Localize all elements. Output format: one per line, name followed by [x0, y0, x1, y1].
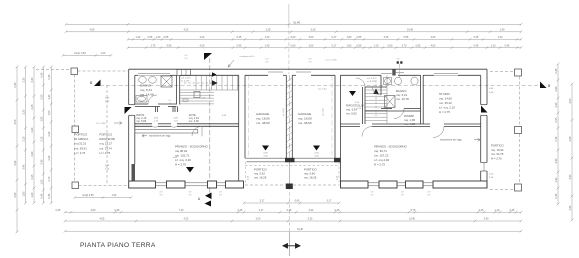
svg-text:ms. 48,60: ms. 48,60 — [298, 121, 312, 125]
svg-text:0,45: 0,45 — [237, 36, 242, 39]
garage bottom wall with doors — [285, 158, 295, 163]
svg-text:0,45: 0,45 — [510, 209, 515, 212]
svg-text:H = 2,75: H = 2,75 — [491, 156, 502, 160]
svg-text:esposizione per ragg.: esposizione per ragg. — [149, 135, 171, 138]
section B marker right — [540, 82, 547, 89]
svg-text:0,45: 0,45 — [14, 82, 17, 87]
window lines in top wall — [138, 73, 170, 75]
svg-text:0,45: 0,45 — [237, 44, 242, 47]
svg-text:3,43: 3,43 — [569, 136, 572, 141]
dashed outline left portico — [36, 69, 71, 71]
svg-text:0,55: 0,55 — [148, 36, 153, 39]
svg-text:0,45: 0,45 — [287, 209, 292, 212]
svg-text:Ampl. 3,50: Ampl. 3,50 — [74, 52, 86, 55]
svg-text:mq. 18,00: mq. 18,00 — [256, 116, 270, 120]
dimension line left outer — [16, 67, 18, 232]
wall bottom of ripos/ante — [135, 123, 152, 125]
svg-text:0,45: 0,45 — [48, 193, 51, 198]
window sill right-3 — [423, 182, 433, 184]
svg-text:PRANZO - SOGGIORNO: PRANZO - SOGGIORNO — [374, 144, 408, 148]
svg-text:1,80: 1,80 — [40, 116, 43, 121]
wall top of pranzo right unit — [341, 123, 361, 125]
dimension line bottom tier-3 — [65, 220, 521, 222]
svg-text:3,20: 3,20 — [311, 29, 316, 32]
svg-text:4,00: 4,00 — [431, 36, 436, 39]
outer wall left of left unit — [128, 69, 130, 104]
section A flag bottom — [205, 193, 212, 200]
outer wall top — [129, 68, 487, 70]
svg-text:2,50: 2,50 — [40, 94, 43, 99]
dashed axis garage right — [331, 76, 333, 159]
bagno left: sinks — [139, 76, 147, 83]
outer wall right of right unit — [480, 75, 482, 104]
bottom wall left unit with windows — [129, 181, 156, 188]
wall bagno left right unit — [380, 75, 382, 95]
svg-text:3,40: 3,40 — [14, 160, 17, 165]
svg-text:2,40: 2,40 — [48, 155, 51, 160]
svg-text:1,10: 1,10 — [495, 209, 500, 212]
door notch arcs on ripos/ante wall — [152, 125, 158, 128]
svg-text:0,45: 0,45 — [335, 209, 340, 212]
svg-text:2,60: 2,60 — [555, 86, 558, 91]
window sill left-2 — [185, 182, 208, 184]
svg-text:1,20: 1,20 — [156, 36, 161, 39]
portico bottom dashed — [245, 184, 286, 186]
svg-text:H = 2,75: H = 2,75 — [75, 151, 86, 155]
dimension line bottom overall 31,40 — [65, 230, 521, 232]
svg-text:0,9: 0,9 — [169, 103, 172, 105]
svg-text:4,20: 4,20 — [200, 44, 205, 47]
bottom wall right unit with windows — [341, 181, 369, 188]
svg-text:mq. 18,00: mq. 18,00 — [298, 116, 312, 120]
svg-text:PORTICO: PORTICO — [100, 132, 114, 136]
svg-text:1,40: 1,40 — [555, 177, 558, 182]
svg-text:1,00: 1,00 — [101, 52, 106, 55]
svg-text:4,20: 4,20 — [200, 36, 205, 39]
svg-text:0,45: 0,45 — [555, 193, 558, 198]
svg-text:ms. 5,86: ms. 5,86 — [136, 119, 147, 123]
svg-text:3,25: 3,25 — [308, 218, 313, 221]
svg-text:mq 38,04: mq 38,04 — [175, 149, 187, 153]
svg-text:0,55: 0,55 — [404, 36, 409, 39]
svg-text:3,00: 3,00 — [309, 44, 314, 47]
esposizione arrow left unit — [142, 134, 147, 137]
svg-text:3,40: 3,40 — [23, 164, 26, 169]
dimension line bottom lungh — [75, 197, 131, 199]
svg-text:H = 2,70: H = 2,70 — [175, 163, 186, 167]
stair newel left — [194, 92, 200, 98]
svg-text:0,45: 0,45 — [115, 209, 120, 212]
pillar right middle — [515, 127, 522, 134]
dimension line right outer — [571, 84, 573, 220]
dimension line left mid-2 — [33, 67, 35, 203]
chimney left (in wall band) — [177, 69, 190, 75]
window sill right-2 — [397, 182, 406, 184]
svg-text:2,40: 2,40 — [31, 151, 34, 156]
svg-text:avv. 1,50: avv. 1,50 — [318, 89, 327, 91]
svg-text:2,30: 2,30 — [31, 77, 34, 82]
svg-text:sal. 0,272: sal. 0,272 — [367, 78, 377, 80]
window sill left-3 — [217, 182, 226, 184]
section A line vertical — [209, 58, 211, 196]
svg-text:al. 0,176: al. 0,176 — [367, 81, 376, 83]
svg-text:mq. 14,60: mq. 14,60 — [439, 97, 452, 101]
svg-text:2,15: 2,15 — [40, 136, 43, 141]
svg-text:ms. 102,71: ms. 102,71 — [175, 154, 190, 158]
svg-text:0,90: 0,90 — [167, 44, 172, 47]
door jamb stubs ripos/ante — [155, 107, 157, 113]
svg-text:2,40: 2,40 — [48, 131, 51, 136]
svg-text:0,9: 0,9 — [169, 100, 172, 102]
svg-text:ms. 33,74: ms. 33,74 — [100, 146, 113, 150]
bagno left: shower — [161, 76, 172, 87]
svg-text:3,40: 3,40 — [569, 174, 572, 179]
svg-text:4,50: 4,50 — [14, 119, 17, 124]
counter bar top of pranzo left unit — [135, 130, 198, 134]
svg-text:1,80: 1,80 — [23, 191, 26, 196]
svg-text:3,60: 3,60 — [91, 209, 96, 212]
svg-text:0,45: 0,45 — [40, 72, 43, 77]
garage entry triangle left — [262, 146, 269, 151]
door arc pranzo right-2 — [433, 127, 444, 138]
svg-text:ESISTENTE: ESISTENTE — [100, 137, 116, 141]
svg-text:esposizione per ragg.: esposizione per ragg. — [440, 139, 462, 142]
svg-text:sal. 0,272: sal. 0,272 — [181, 78, 191, 80]
svg-text:BAGNO: BAGNO — [140, 84, 152, 88]
svg-text:s.f. mq. 2,15: s.f. mq. 2,15 — [439, 105, 455, 109]
dimension line top tier-1 overall — [66, 23, 521, 25]
svg-text:2,15: 2,15 — [23, 136, 26, 141]
svg-text:1,90: 1,90 — [112, 194, 117, 197]
flue marks right unit — [397, 61, 399, 63]
datum symbol horizontal arrows — [288, 232, 290, 256]
svg-text:2,30: 2,30 — [23, 77, 26, 82]
svg-text:0,45: 0,45 — [56, 209, 61, 212]
svg-text:H = 2,75: H = 2,75 — [100, 151, 111, 155]
step below stairs left — [183, 99, 188, 102]
svg-text:ms. 14,98: ms. 14,98 — [140, 92, 154, 96]
svg-text:0,55: 0,55 — [357, 44, 362, 47]
svg-text:mq. 39,71: mq. 39,71 — [374, 149, 387, 153]
svg-text:s.f. 1,10: s.f. 1,10 — [323, 108, 325, 116]
wall corridor/stairs right unit — [362, 87, 364, 124]
svg-text:4,50: 4,50 — [569, 98, 572, 103]
svg-text:STUDIO: STUDIO — [439, 92, 451, 96]
dimension line left mid-3 — [42, 67, 44, 203]
wall between right garage and right unit — [334, 75, 336, 158]
dimension line right inner — [557, 64, 559, 204]
center axis line — [288, 4, 290, 24]
bagno right: wc bidet — [384, 78, 392, 85]
svg-text:s.f. mq.4,92: s.f. mq.4,92 — [374, 158, 389, 162]
svg-text:PIANTA PIANO TERRA: PIANTA PIANO TERRA — [80, 242, 156, 249]
dimension line top tier-4 — [128, 47, 521, 49]
window sill right-1 — [368, 182, 379, 184]
stairs left unit — [180, 76, 239, 104]
door arc bagno right — [372, 86, 381, 95]
svg-text:0,17: 0,17 — [332, 44, 337, 47]
svg-text:1,75: 1,75 — [151, 44, 156, 47]
svg-text:ms. 48,60: ms. 48,60 — [256, 121, 270, 125]
annotation arrow intradosso — [228, 60, 234, 67]
wall bagno/studio right unit — [420, 75, 422, 124]
dimension line bottom tier-2 — [65, 211, 521, 213]
svg-text:3,70: 3,70 — [402, 44, 407, 47]
svg-text:3,40: 3,40 — [484, 218, 489, 221]
bagno left: wc — [136, 96, 147, 103]
svg-text:1,10: 1,10 — [374, 44, 379, 47]
svg-text:H = 2,75: H = 2,75 — [439, 110, 450, 114]
svg-text:0,45: 0,45 — [238, 209, 243, 212]
svg-text:2,45: 2,45 — [479, 209, 484, 212]
svg-text:3,40: 3,40 — [555, 158, 558, 163]
svg-text:mq. 13,27: mq. 13,27 — [100, 142, 113, 146]
svg-text:0,55: 0,55 — [357, 36, 362, 39]
svg-text:1,40: 1,40 — [48, 94, 51, 99]
entrance door left unit — [125, 107, 132, 114]
svg-text:ms. 4,86: ms. 4,86 — [404, 122, 415, 126]
svg-text:1,50: 1,50 — [40, 179, 43, 184]
svg-text:3,20: 3,20 — [256, 218, 261, 221]
svg-text:mq 31,31: mq 31,31 — [75, 142, 87, 146]
svg-text:al. 0,176: al. 0,176 — [181, 80, 190, 82]
svg-text:ms. 35,42: ms. 35,42 — [439, 101, 452, 105]
svg-text:10,40: 10,40 — [409, 218, 416, 221]
dimension line bottom garage doors — [244, 202, 339, 204]
dimension line top tier-3 — [128, 38, 521, 40]
svg-text:4,05: 4,05 — [100, 218, 105, 221]
svg-text:1,40: 1,40 — [265, 36, 270, 39]
dimension line left mid-1 — [25, 67, 27, 203]
svg-text:H = 2,75: H = 2,75 — [374, 163, 385, 167]
svg-text:4,22: 4,22 — [184, 29, 189, 32]
party wall pier below garages — [288, 162, 290, 184]
svg-text:1,50: 1,50 — [48, 110, 51, 115]
svg-text:ms. 9,02: ms. 9,02 — [346, 112, 357, 116]
svg-text:3,20: 3,20 — [23, 109, 26, 114]
door arc corridor right unit — [356, 78, 365, 87]
svg-text:PRANZO - SOGGIORNO: PRANZO - SOGGIORNO — [175, 144, 209, 148]
stairs right unit (vertical flight) — [365, 76, 387, 125]
svg-text:3,40: 3,40 — [309, 209, 314, 212]
pillar left top — [71, 68, 78, 75]
stair direction dashed right — [375, 80, 377, 116]
svg-text:3,00: 3,00 — [309, 36, 314, 39]
svg-text:0,66: 0,66 — [295, 200, 300, 203]
window sill left-1 — [156, 182, 167, 184]
svg-text:1,10: 1,10 — [491, 44, 496, 47]
wall between left unit and left garage — [238, 75, 240, 180]
svg-text:2,15: 2,15 — [31, 174, 34, 179]
entry arrow left unit living room — [186, 167, 194, 173]
svg-text:0,45: 0,45 — [555, 68, 558, 73]
pillar right top — [515, 69, 522, 76]
svg-text:GARAGE: GARAGE — [256, 112, 269, 116]
svg-text:(-) C.T. 0/90: (-) C.T. 0/90 — [326, 60, 338, 62]
svg-text:2,40: 2,40 — [31, 127, 34, 132]
door arc disimp — [394, 109, 404, 119]
svg-text:ms. 16,28: ms. 16,28 — [254, 176, 267, 180]
garage door left — [245, 157, 285, 159]
svg-text:3,25: 3,25 — [266, 29, 271, 32]
svg-text:31,40: 31,40 — [297, 228, 304, 231]
wall bagno/stairs left unit — [176, 75, 178, 104]
svg-text:0,60: 0,60 — [291, 36, 296, 39]
svg-text:4,00: 4,00 — [431, 44, 436, 47]
svg-text:1,40: 1,40 — [136, 36, 141, 39]
window marker triangle on top wall — [212, 72, 217, 76]
svg-text:3,17: 3,17 — [259, 209, 264, 212]
svg-text:GARAGE: GARAGE — [298, 112, 311, 116]
portico floor edge line — [245, 165, 339, 167]
svg-text:IN AMPLIA.: IN AMPLIA. — [75, 137, 90, 141]
svg-text:3,45: 3,45 — [384, 36, 389, 39]
wall below bagno left unit — [135, 103, 148, 105]
svg-text:0,17: 0,17 — [332, 36, 337, 39]
svg-text:0,55: 0,55 — [416, 44, 421, 47]
svg-text:0,45: 0,45 — [474, 44, 479, 47]
svg-text:0,60: 0,60 — [388, 44, 393, 47]
pillar left bottom — [72, 182, 79, 189]
dimension line top tier-2 — [66, 31, 521, 33]
window in right wall — [483, 163, 485, 172]
garage door right — [295, 157, 336, 159]
svg-text:7,10: 7,10 — [179, 209, 184, 212]
svg-text:1,80: 1,80 — [347, 44, 352, 47]
svg-text:0,45: 0,45 — [555, 136, 558, 141]
svg-text:lungh 2,55: lungh 2,55 — [82, 194, 94, 197]
svg-text:ms. 16,28: ms. 16,28 — [304, 176, 317, 180]
door arc ante/pranzo — [192, 126, 202, 136]
svg-text:1,95: 1,95 — [569, 205, 572, 210]
svg-text:4,22: 4,22 — [184, 218, 189, 221]
svg-text:2,95: 2,95 — [14, 192, 17, 197]
dashed outline right portico — [490, 71, 514, 73]
svg-text:0,45: 0,45 — [40, 193, 43, 198]
svg-text:ms. 16,78: ms. 16,78 — [396, 97, 409, 101]
dashed axis garage left — [247, 76, 249, 159]
dimension line Ampl. 3,50 — [63, 54, 111, 56]
svg-text:3,17: 3,17 — [327, 200, 332, 203]
svg-text:31,40: 31,40 — [293, 20, 300, 24]
svg-text:PORTICO: PORTICO — [75, 132, 89, 136]
svg-text:ms. 4,06: ms. 4,06 — [189, 119, 200, 123]
svg-text:0,55: 0,55 — [555, 117, 558, 122]
svg-text:mq. 5,31: mq. 5,31 — [140, 88, 152, 92]
entrance door right unit — [481, 106, 488, 113]
svg-text:0,45: 0,45 — [474, 36, 479, 39]
svg-text:0,60: 0,60 — [291, 44, 296, 47]
svg-text:s.f. mq. 3,94: s.f. mq. 3,94 — [175, 158, 191, 162]
svg-text:5,75: 5,75 — [411, 209, 416, 212]
svg-text:0,45: 0,45 — [48, 74, 51, 79]
svg-text:0,45: 0,45 — [505, 44, 510, 47]
dimension line left inner — [50, 67, 52, 203]
party wall between units — [285, 75, 287, 158]
svg-text:1,20: 1,20 — [555, 102, 558, 107]
svg-text:1,70: 1,70 — [48, 176, 51, 181]
pillar right bottom — [515, 184, 522, 191]
svg-text:1,40: 1,40 — [31, 192, 34, 197]
door arc pranzo right-1 — [362, 127, 372, 137]
stair down triangle right unit — [349, 91, 356, 96]
svg-text:10,40: 10,40 — [407, 29, 414, 32]
svg-text:3,17: 3,17 — [260, 200, 265, 203]
section A flag top — [204, 53, 212, 60]
svg-text:ms. 107,22: ms. 107,22 — [374, 154, 389, 158]
svg-text:intradosso di 10: intradosso di 10 — [240, 55, 256, 58]
svg-text:s.f. 1,10: s.f. 1,10 — [283, 108, 285, 116]
wall top of stairs right unit — [365, 86, 387, 88]
portico side dashed verticals — [245, 162, 247, 185]
svg-text:1,40: 1,40 — [265, 44, 270, 47]
svg-text:2,40: 2,40 — [40, 159, 43, 164]
pillar left middle — [72, 126, 79, 133]
svg-text:1,80: 1,80 — [347, 36, 352, 39]
garage entry triangle right — [313, 146, 320, 151]
svg-text:ms. 59,41: ms. 59,41 — [75, 146, 88, 150]
svg-text:4,05: 4,05 — [90, 29, 95, 32]
svg-text:1,40: 1,40 — [500, 29, 505, 32]
svg-text:C.T. -0.90: C.T. -0.90 — [96, 123, 106, 125]
svg-text:1,40: 1,40 — [498, 36, 503, 39]
svg-text:0,55: 0,55 — [164, 36, 169, 39]
bagno right: shower — [385, 96, 396, 108]
svg-text:2,15: 2,15 — [31, 104, 34, 109]
section B-B dashed line through building — [100, 84, 540, 86]
section B marker left — [94, 80, 101, 87]
chimney breast left living room — [132, 164, 136, 181]
stair direction dashed left — [184, 82, 212, 84]
door arc bagno left — [148, 95, 157, 104]
wall bagno/disimp right unit — [381, 108, 392, 110]
